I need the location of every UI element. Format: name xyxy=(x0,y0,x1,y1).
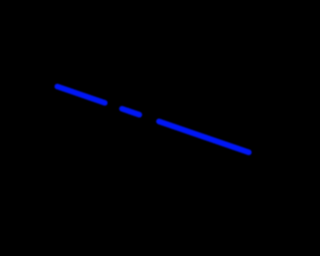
wire segment 1 xyxy=(57,87,105,103)
wire segment 2 xyxy=(122,109,139,115)
blue dashed trajectory line xyxy=(0,0,256,256)
wire segment 3 xyxy=(159,121,249,152)
